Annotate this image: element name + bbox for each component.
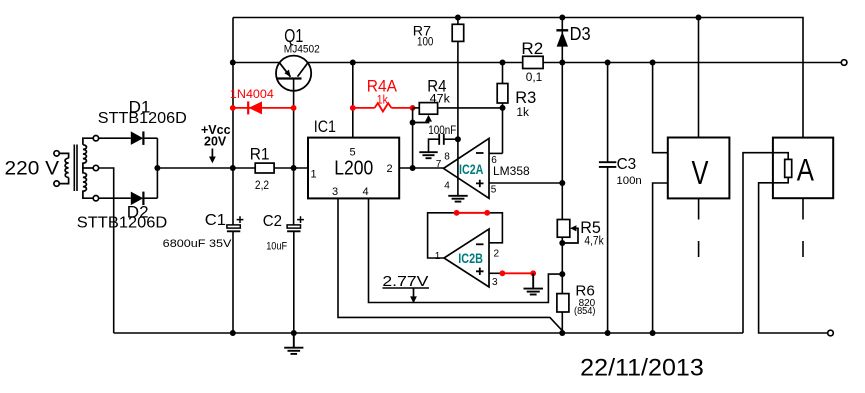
potentiometer R4 body [419, 103, 437, 115]
wire left riser x=233 (rail A left leg through C1) [232, 18, 234, 334]
svg-text:6800uF 35V: 6800uF 35V [163, 238, 233, 250]
capacitor 100nF [429, 134, 458, 152]
wire R6 to ground rail [561, 312, 563, 333]
wire V meter top branch from rail A [698, 18, 700, 138]
diode 1N4004 (red) [233, 101, 294, 114]
node red dot pin3 right [530, 270, 536, 276]
ground symbol at IC2B pin3 [524, 273, 544, 294]
svg-text:22/11/2013: 22/11/2013 [580, 355, 704, 382]
node dot wiper junction [410, 120, 416, 126]
svg-text:0,1: 0,1 [526, 72, 543, 84]
svg-text:4: 4 [363, 186, 369, 198]
node dots on main +Vcc wire [154, 165, 415, 171]
ground symbol below IC2A pin 4 [448, 196, 467, 202]
svg-text:C3: C3 [617, 156, 637, 173]
IC2A op-amp triangle [444, 138, 490, 198]
wire L200 pin 4 down (reference node) [369, 198, 563, 302]
svg-text:V: V [692, 155, 709, 192]
node red dot at 1N4004 anode / Q1 base [291, 105, 297, 111]
transformer T1 core [74, 145, 77, 192]
terminal output plus (open circle right) [841, 60, 847, 66]
wire bottom ground rail [114, 332, 743, 334]
IC1 L200 box [308, 138, 399, 199]
svg-text:R3: R3 [515, 89, 536, 107]
transformer T1 primary winding [59, 153, 68, 183]
wire center tap to ground rail [99, 168, 114, 333]
wire R7 supply riser to opamp pin8 and ground [457, 41, 459, 195]
wire V meter probe stub and dash [698, 198, 700, 257]
node red dot feedback left [454, 210, 460, 216]
diode D1 [131, 131, 158, 145]
ground symbol at 100nF [419, 152, 437, 158]
transistor Q1 body [276, 56, 311, 91]
voltmeter V box [668, 138, 730, 199]
svg-text:C2: C2 [263, 213, 282, 230]
svg-text:8: 8 [444, 151, 450, 162]
node dots on rail A [455, 15, 702, 21]
resistor R1 [255, 163, 274, 173]
svg-text:4,7k: 4,7k [584, 235, 604, 247]
capacitor C3 [599, 63, 616, 334]
transformer T1 secondary windings [83, 138, 93, 198]
potentiometer R4 wiper arrow [413, 115, 432, 123]
wire A meter probe stub and dash [802, 198, 804, 257]
svg-text:47k: 47k [430, 93, 450, 105]
wire rail B (emitter/collector rail) [233, 62, 841, 64]
node red dot R4A right [410, 105, 416, 111]
wire IC2A pin5 to sense node [489, 182, 562, 184]
wire secondary bottom to D2 [99, 197, 131, 199]
wire Q1 base riser x=293.6 down through C2 node [293, 79, 295, 226]
wire IC2A pin6 [489, 152, 503, 154]
resistor R3 [497, 63, 508, 154]
capacitor C1 [227, 216, 244, 231]
svg-text:(854): (854) [574, 306, 596, 317]
svg-text:6: 6 [491, 155, 497, 166]
svg-text:5: 5 [350, 147, 356, 159]
node dots on ground rail [230, 330, 656, 336]
wire R4 right to R3 node [438, 107, 503, 109]
wire V meter left branch from rail B [653, 63, 668, 153]
node dots on rail B [230, 60, 656, 66]
capacitor C2 [287, 216, 304, 333]
svg-text:L200: L200 [334, 158, 373, 180]
svg-text:IC2A: IC2A [459, 161, 483, 177]
node red dot at 1N4004 cathode [230, 105, 236, 111]
potentiometer R5 body [557, 220, 570, 238]
node red dot feedback right [484, 210, 490, 216]
resistor R4A (red zigzag) [353, 103, 413, 111]
svg-text:220 V: 220 V [5, 158, 60, 179]
wire rectifier cathode node vertical [156, 138, 158, 198]
diode D2 [131, 192, 158, 206]
wire red overlay on feedback [457, 212, 488, 214]
svg-text:3: 3 [492, 277, 498, 288]
svg-text:10uF: 10uF [266, 240, 287, 252]
svg-text:100nF: 100nF [428, 125, 456, 137]
svg-text:STTB1206D: STTB1206D [98, 110, 187, 127]
svg-text:1: 1 [435, 251, 441, 262]
wire rail A (top) [233, 18, 803, 138]
svg-text:1k: 1k [377, 95, 388, 107]
svg-text:IC2B: IC2B [458, 250, 483, 266]
svg-text:100n: 100n [616, 175, 641, 187]
svg-text:MJ4502: MJ4502 [284, 44, 320, 56]
node red dot pin3 left [500, 270, 506, 276]
svg-text:2,2: 2,2 [255, 180, 269, 192]
IC2B op-amp triangle [444, 229, 489, 287]
svg-text:R5: R5 [580, 218, 601, 237]
node dots misc [559, 180, 565, 277]
svg-text:IC1: IC1 [314, 117, 336, 136]
potentiometer R5 wiper arrow [562, 225, 578, 243]
svg-text:R2: R2 [521, 40, 543, 58]
svg-text:7: 7 [436, 159, 442, 170]
wire IC2B pin3 stub [489, 272, 502, 274]
svg-text:3: 3 [332, 186, 338, 198]
label 2.77V with underline and arrow [382, 273, 429, 303]
wire red pin3 to ground [502, 272, 533, 274]
svg-text:1: 1 [311, 169, 317, 181]
node dot R3 bottom / R4 wire [500, 105, 506, 111]
wire V meter lower left to ground rail [653, 183, 668, 333]
wire L200 pin 3 down [338, 198, 562, 333]
svg-text:1N4004: 1N4004 [230, 89, 275, 101]
wire shunt bottom to output minus terminal [759, 177, 828, 333]
wire main +Vcc line y=168 [157, 167, 308, 169]
svg-text:A: A [797, 152, 814, 188]
svg-text:R1: R1 [250, 145, 270, 164]
svg-text:5: 5 [491, 184, 497, 195]
wire IC2B feedback loop pin2 to pin1 [428, 213, 503, 258]
wire R5 to R6 [561, 237, 563, 293]
node dot 100nF to pin8 [455, 136, 461, 142]
transformer T1 secondary terminals [93, 136, 98, 201]
transformer T1 primary terminals [54, 151, 59, 187]
shunt resistor inside A meter [785, 159, 792, 177]
wire shunt top feed from ground rail [743, 153, 788, 333]
wire L200 pin2 to op-amp output [399, 167, 443, 169]
resistor R2 (current sense in rail B) [523, 56, 543, 68]
wire L200 output riser x=352.8 [352, 63, 354, 138]
svg-text:2: 2 [387, 163, 393, 175]
svg-text:100: 100 [417, 36, 433, 48]
svg-text:1k: 1k [516, 107, 529, 119]
svg-text:LM358: LM358 [493, 164, 530, 178]
svg-text:20V: 20V [204, 135, 227, 149]
ammeter A box [773, 138, 833, 199]
svg-text:2: 2 [494, 249, 500, 260]
resistor R7 [452, 18, 464, 42]
ground symbol at C2 / bottom rail [284, 333, 303, 354]
node red dot R4A left [350, 105, 356, 111]
svg-text:R4A: R4A [367, 76, 398, 95]
resistor R6 [557, 294, 569, 312]
wire secondary top to D1 [99, 137, 131, 139]
wire riser x=412.6 (R4A/wiper to op-amp output wire) [412, 108, 414, 168]
svg-text:4: 4 [444, 180, 450, 191]
terminal output minus (open circle bottom right) [828, 330, 834, 336]
svg-text:D3: D3 [570, 24, 591, 44]
wire output riser x=562.3 (D3/R2 node down to R5) [561, 63, 563, 220]
label +Vcc 20V with arrow [201, 123, 231, 163]
svg-text:STTB1206D: STTB1206D [77, 215, 168, 232]
svg-text:C1: C1 [205, 212, 226, 229]
wire R4A to R4 [413, 107, 420, 109]
diode D3 [556, 18, 568, 63]
